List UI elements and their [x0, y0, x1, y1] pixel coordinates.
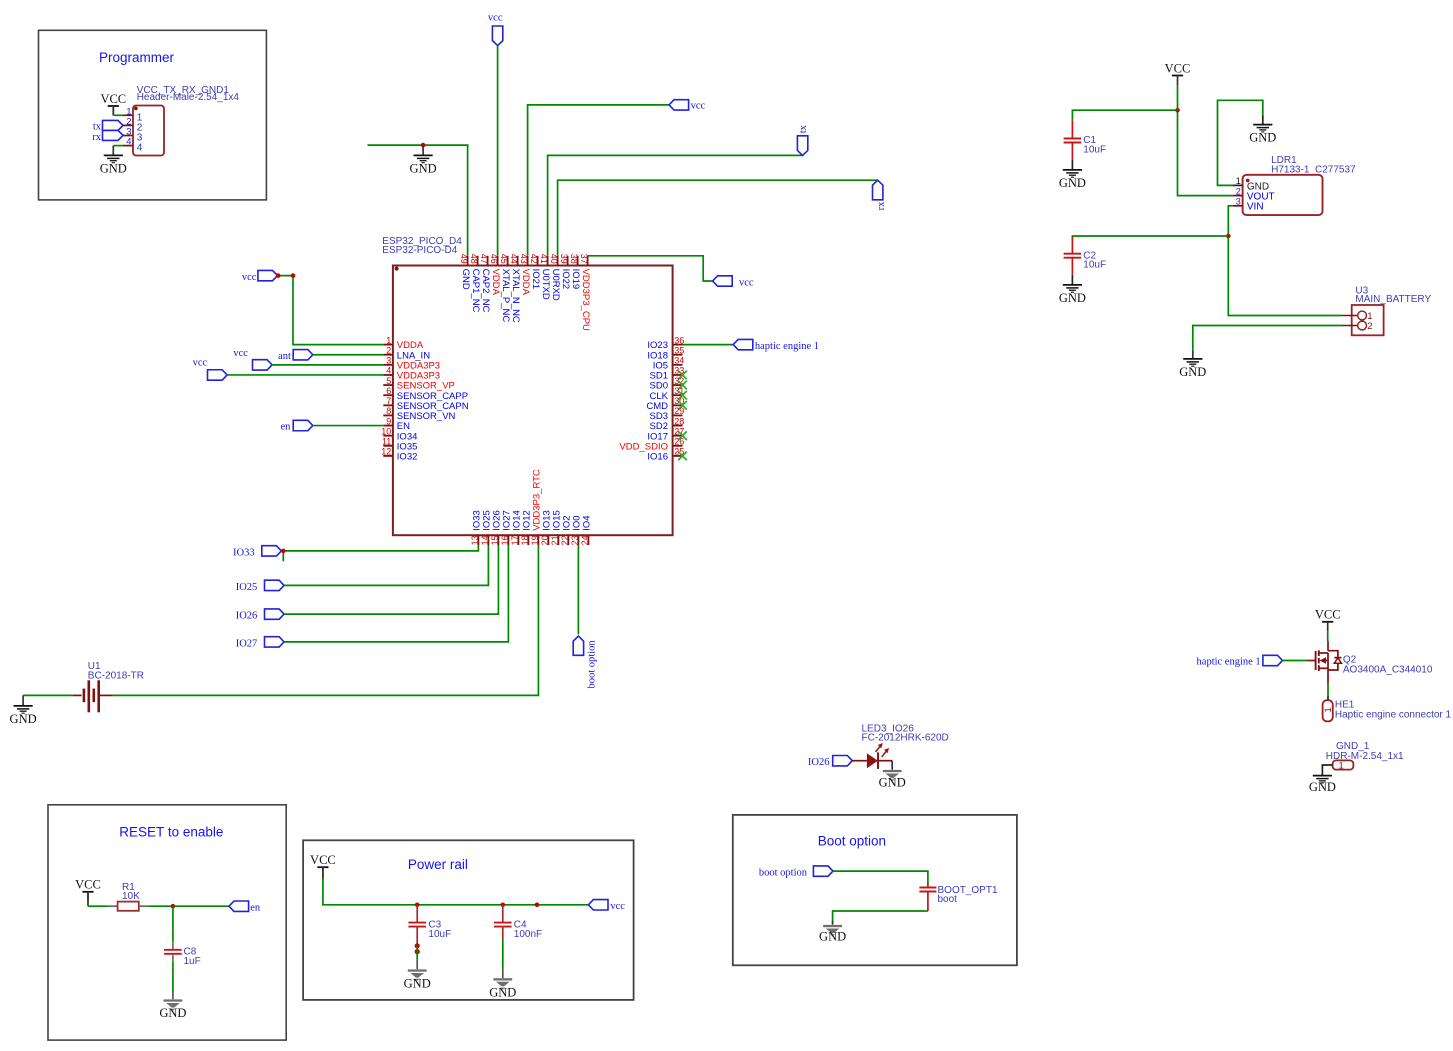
svg-text:2: 2	[1367, 321, 1372, 332]
svg-text:GND: GND	[1309, 780, 1336, 794]
svg-text:16: 16	[500, 535, 510, 545]
svg-text:1: 1	[386, 335, 391, 345]
svg-text:4: 4	[137, 143, 143, 154]
wire LDR1 GND pin to GND symbol	[1218, 100, 1263, 185]
svg-text:10uF: 10uF	[428, 929, 451, 940]
wire en flag to ESP32 pin 9	[313, 425, 384, 427]
junction rail/C3	[415, 903, 420, 908]
ground GND (LED3)	[879, 770, 906, 790]
ESP32 pin 12 IO32	[381, 447, 417, 463]
svg-text:Programmer: Programmer	[99, 50, 175, 65]
svg-text:22: 22	[560, 535, 570, 545]
junction VIN / C2 branch	[1226, 234, 1231, 239]
header VCC_TX_RX_GND1 Header-Male-2.54_1x4	[123, 85, 239, 156]
ESP32 pin 10 IO34	[381, 426, 417, 442]
wire VCC to header pin 1	[113, 106, 123, 115]
svg-text:3: 3	[1236, 197, 1241, 207]
svg-text:GND: GND	[489, 986, 516, 1000]
title: RESET to enable	[119, 825, 223, 840]
svg-text:23: 23	[570, 535, 580, 545]
ESP32 pin 3 VDDA3P3	[383, 356, 440, 372]
wire vcc flag to ESP32 pin 3	[272, 364, 383, 366]
svg-text:44: 44	[509, 254, 519, 264]
net flag IO27 (to ESP32 pin 16)	[236, 637, 284, 650]
svg-text:U0RXD: U0RXD	[550, 269, 561, 301]
net flag IO26 (to LED3)	[808, 756, 852, 768]
svg-text:IO4: IO4	[582, 515, 593, 530]
ESP32 pin 33 SD1	[650, 366, 687, 382]
ground GND (C8)	[159, 999, 186, 1019]
svg-text:2: 2	[1236, 186, 1241, 196]
ground GND (GND_1)	[1309, 776, 1336, 794]
svg-text:IO33: IO33	[233, 547, 255, 558]
ground GND (top rail)	[410, 145, 437, 175]
wire vcc flag to ESP32 pin 46	[497, 46, 499, 256]
ESP32 pin 34 IO5	[653, 356, 685, 372]
svg-text:10K: 10K	[122, 891, 140, 902]
wire IO26 flag to ESP32 pin 15	[284, 545, 498, 614]
wire ESP32 pin 23 IO0 to boot option flag	[577, 545, 579, 634]
wire BOOT_OPT1 to GND	[833, 911, 928, 925]
ESP32 pin 16 IO27	[500, 510, 512, 545]
svg-text:13: 13	[470, 535, 480, 545]
ESP32 pin 45 XTAL_P_NC	[499, 254, 511, 323]
junction rail (right)	[535, 903, 540, 908]
ESP32 pin 40 U0RXD	[549, 254, 561, 301]
net flag IO33 (to ESP32 pin 13)	[233, 546, 281, 559]
battery U1 BC-2018-TR	[72, 661, 144, 712]
svg-text:6: 6	[386, 386, 391, 396]
svg-text:34: 34	[674, 356, 684, 366]
connector GND_1 HDR-M-2.54_1x1	[1326, 741, 1404, 771]
svg-text:tx: tx	[93, 121, 102, 132]
power flag VCC (Q2 drain)	[1315, 608, 1341, 632]
svg-text:Boot option: Boot option	[818, 834, 886, 849]
transistor Q2 AO3400A_C344010	[1308, 641, 1433, 684]
svg-text:7: 7	[386, 396, 391, 406]
net flag tx (to ESP32 pin 41)	[797, 124, 808, 155]
junction R1/C8/en	[171, 904, 176, 909]
svg-text:boot option: boot option	[586, 640, 597, 689]
svg-text:41: 41	[539, 254, 549, 264]
svg-text:12: 12	[381, 447, 391, 457]
capacitor C1 10uF	[1064, 120, 1106, 160]
ESP32 pin 17 IO14	[510, 510, 522, 545]
LED LED3_IO26 FC-2012HRK-620D	[852, 723, 948, 769]
svg-text:VCC: VCC	[1315, 608, 1341, 622]
svg-text:10: 10	[381, 426, 391, 436]
svg-text:1uF: 1uF	[184, 956, 201, 967]
svg-text:38: 38	[569, 254, 579, 264]
svg-text:GND: GND	[1059, 176, 1086, 190]
net flag vcc (to ESP32 pin 1 VDDA)	[242, 270, 278, 282]
svg-text:43: 43	[519, 254, 529, 264]
svg-text:VCC: VCC	[75, 878, 101, 892]
svg-text:100nF: 100nF	[514, 929, 542, 940]
ESP32 pin 28 SD2	[650, 416, 685, 432]
svg-text:46: 46	[489, 254, 499, 264]
svg-text:19: 19	[530, 535, 540, 545]
regulator LDR1 H7133-1_C277537	[1233, 155, 1356, 215]
frame: Programmer section box	[39, 30, 267, 200]
wire GND rail to ESP32 pin 49	[368, 145, 468, 256]
wire U3 pin 2 to GND	[1193, 326, 1342, 359]
svg-text:2: 2	[386, 345, 391, 355]
svg-text:37: 37	[579, 254, 589, 264]
ESP32 pin 24 IO4	[580, 515, 592, 545]
net flag boot option (boot box)	[759, 866, 833, 879]
svg-text:Haptic engine connector 1: Haptic engine connector 1	[1335, 709, 1452, 720]
wire battery U1 to GND	[23, 695, 72, 705]
net flag en (reset)	[229, 901, 261, 913]
wire C3 to GND	[416, 946, 418, 969]
svg-text:GND: GND	[159, 1006, 186, 1020]
wire VCC to R1	[88, 892, 108, 906]
resistor R1 10K	[108, 882, 148, 911]
svg-text:9: 9	[386, 416, 391, 426]
svg-text:42: 42	[529, 254, 539, 264]
svg-text:GND: GND	[100, 161, 127, 175]
svg-text:5: 5	[386, 376, 391, 386]
wire ant flag to ESP32 pin 2	[313, 354, 384, 356]
svg-text:IO16: IO16	[647, 452, 668, 463]
svg-text:IO27: IO27	[236, 638, 258, 649]
svg-text:tx: tx	[798, 124, 809, 133]
ground GND (C3)	[404, 969, 431, 990]
wire ESP32 pin 40 to rx flag	[558, 180, 878, 256]
svg-text:17: 17	[510, 535, 520, 545]
svg-text:vcc: vcc	[488, 13, 503, 24]
net flag vcc (power rail)	[588, 900, 625, 913]
ground GND (LDR1)	[1249, 125, 1276, 145]
svg-text:28: 28	[674, 416, 684, 426]
wire IO33 flag to ESP32 pin 13	[281, 545, 478, 561]
ESP32 pin 32 SD0	[650, 376, 687, 392]
net flag vcc (to ESP32 pin 4 VDDA3P3)	[193, 357, 228, 380]
wire vcc flag to ESP32 pin 1	[278, 276, 384, 345]
wire IO27 flag to ESP32 pin 16	[284, 545, 508, 642]
jumper BOOT_OPT1 boot	[919, 883, 998, 911]
ESP32 pin 36 IO23	[647, 335, 684, 351]
ground GND (battery)	[10, 706, 37, 726]
ESP32 pin 8 SENSOR_VN	[383, 406, 455, 422]
capacitor C4 100nF	[494, 905, 542, 940]
ESP32 pin 2 LNA_IN	[383, 345, 430, 361]
svg-text:35: 35	[674, 345, 684, 355]
ESP32 pin 37 VDD3P3_CPU	[579, 254, 591, 331]
ESP32 pin 1 VDDA	[383, 335, 424, 351]
ESP32 pin 38 IO19	[569, 254, 581, 289]
ESP32 pin 44 XTAL_N_NC	[509, 254, 521, 323]
svg-text:BC-2018-TR: BC-2018-TR	[88, 671, 144, 682]
svg-text:haptic engine 1: haptic engine 1	[1197, 657, 1261, 668]
svg-text:4: 4	[386, 366, 391, 376]
wire Q2 source to HE1	[1327, 684, 1329, 700]
svg-text:CAP1_NC: CAP1_NC	[470, 269, 481, 313]
svg-text:IO26: IO26	[808, 757, 830, 768]
svg-text:AO3400A_C344010: AO3400A_C344010	[1343, 664, 1433, 675]
junction VCC / C1 branch	[1175, 108, 1180, 113]
svg-text:24: 24	[580, 535, 590, 545]
svg-text:XTAL_P_NC: XTAL_P_NC	[500, 269, 511, 323]
junction at vcc flag tip	[276, 273, 281, 278]
net flag en (to ESP32 pin 9 EN)	[280, 420, 312, 432]
wire ESP32 pin 19 VDD3P3_RTC to battery U1	[113, 545, 539, 695]
connector HE1 Haptic engine connector 1	[1323, 700, 1452, 722]
svg-text:boot: boot	[938, 894, 958, 905]
svg-text:IO25: IO25	[236, 582, 258, 593]
title: Programmer	[99, 50, 175, 65]
ESP32 pin 20 IO13	[540, 510, 552, 545]
svg-text:IO32: IO32	[397, 452, 418, 463]
svg-text:en: en	[250, 902, 261, 913]
svg-text:VCC: VCC	[310, 853, 336, 867]
svg-text:U0TXD: U0TXD	[540, 269, 551, 300]
svg-text:11: 11	[382, 437, 391, 447]
svg-text:14: 14	[480, 535, 490, 545]
svg-text:VIN: VIN	[1247, 202, 1264, 213]
svg-text:CAP2_NC: CAP2_NC	[480, 269, 491, 313]
title: Power rail	[408, 857, 468, 872]
svg-text:VDDA: VDDA	[490, 269, 501, 296]
ESP32 pin 19 VDD3P3_RTC	[530, 469, 542, 545]
wire junction to C2	[1072, 236, 1228, 238]
ESP32 pin 11 IO35	[382, 437, 417, 453]
svg-text:GND: GND	[1179, 365, 1206, 379]
wire R1 to en flag	[148, 905, 229, 907]
frame: RESET to enable section box	[48, 805, 286, 1040]
svg-text:39: 39	[559, 254, 569, 264]
IC ESP32_PICO_D4 (ESP32-PICO-D4)	[382, 236, 672, 535]
battery connector U3 MAIN_BATTERY	[1342, 286, 1432, 336]
svg-text:40: 40	[549, 254, 559, 264]
svg-text:IO21: IO21	[530, 269, 541, 290]
ESP32 pin 30 CMD	[646, 396, 686, 412]
ESP32 pin 15 IO26	[490, 510, 502, 545]
ESP32 pin 23 IO0	[570, 515, 582, 545]
net flag tx (programmer)	[93, 120, 123, 132]
svg-text:ESP32-PICO-D4: ESP32-PICO-D4	[382, 245, 457, 256]
svg-text:RESET to enable: RESET to enable	[119, 825, 223, 840]
svg-text:vcc: vcc	[233, 348, 248, 359]
wire VCC rail to vcc flag	[323, 867, 589, 905]
svg-text:VDD3P3_CPU: VDD3P3_CPU	[580, 269, 591, 331]
svg-text:vcc: vcc	[242, 272, 257, 283]
ESP32 pin 35 IO18	[647, 345, 684, 361]
wire vcc flag to ESP32 pin 4	[227, 374, 383, 376]
svg-text:20: 20	[540, 535, 550, 545]
ground GND (boot option)	[819, 925, 846, 944]
svg-text:1: 1	[1323, 707, 1334, 712]
svg-text:48: 48	[469, 254, 479, 264]
svg-text:IO19: IO19	[570, 269, 581, 290]
ESP32 pin 14 IO25	[480, 510, 492, 545]
svg-text:ant: ant	[278, 351, 291, 362]
ESP32 pin 26 VDD_SDIO	[619, 437, 684, 453]
wire C4 to GND	[502, 940, 504, 978]
wire LED3 cathode to GND	[891, 761, 893, 770]
ground GND (C1)	[1059, 160, 1086, 190]
svg-text:haptic engine 1: haptic engine 1	[755, 341, 819, 352]
ESP32 pin 39 IO22	[559, 254, 571, 289]
svg-text:rx: rx	[92, 132, 101, 143]
svg-text:GND: GND	[10, 712, 37, 726]
net flag vcc (top, to ESP32 pin 46)	[488, 13, 503, 46]
svg-text:15: 15	[490, 535, 500, 545]
wire GND_1 pin to GND	[1322, 765, 1332, 775]
svg-text:IO22: IO22	[560, 269, 571, 290]
svg-text:en: en	[280, 422, 291, 433]
svg-text:IO26: IO26	[236, 611, 258, 622]
svg-text:3: 3	[386, 356, 391, 366]
svg-text:boot option: boot option	[759, 868, 808, 879]
svg-text:18: 18	[520, 535, 530, 545]
net flag ant (to ESP32 pin 2 LNA_IN)	[278, 350, 313, 362]
svg-text:GND: GND	[460, 269, 471, 290]
svg-text:10uF: 10uF	[1083, 144, 1106, 155]
svg-text:H7133-1_C277537: H7133-1_C277537	[1271, 164, 1356, 175]
wire VCC down to LDR1 VOUT	[1178, 85, 1233, 196]
ESP32 pin 7 SENSOR_CAPN	[383, 396, 468, 412]
capacitor C8 1uF	[164, 947, 201, 967]
wire IO25 flag to ESP32 pin 14	[284, 545, 488, 585]
wire VCC junction to C1	[1072, 110, 1177, 120]
net flag boot option (at ESP32 pin 23)	[573, 636, 597, 689]
svg-text:XTAL_N_NC: XTAL_N_NC	[510, 269, 521, 323]
net flag haptic engine 1 (at ESP32 pin 36)	[733, 339, 819, 352]
svg-text:vcc: vcc	[610, 901, 625, 912]
svg-text:vcc: vcc	[691, 101, 706, 112]
wire VCC to Q2 drain	[1327, 631, 1329, 641]
ESP32 pin 6 SENSOR_CAPP	[383, 386, 468, 402]
ESP32 pin 29 SD3	[650, 406, 685, 422]
ESP32 pin 9 EN	[383, 416, 410, 432]
power flag VCC (reset)	[75, 878, 101, 902]
svg-text:21: 21	[550, 535, 560, 545]
junction at wire corner	[291, 273, 296, 278]
net flag haptic engine 1 (to Q2 gate)	[1197, 655, 1283, 667]
ESP32 pin 13 IO33	[470, 510, 482, 545]
wire junction to C8	[172, 906, 174, 950]
wire ESP32 pin 41 to tx flag	[548, 155, 803, 255]
svg-text:49: 49	[459, 254, 469, 264]
ESP32 pin 31 CLK	[650, 386, 687, 402]
svg-text:45: 45	[499, 254, 509, 264]
wire ESP32 pin 36 to haptic engine 1 flag	[683, 344, 734, 346]
svg-text:1: 1	[1236, 176, 1241, 186]
svg-text:10uF: 10uF	[1083, 260, 1106, 271]
title: Boot option	[818, 834, 886, 849]
junction at IO33 flag	[281, 549, 286, 554]
svg-text:GND: GND	[1249, 131, 1276, 145]
svg-text:GND: GND	[819, 930, 846, 944]
junction rail/C4	[501, 903, 506, 908]
wire LDR1 VIN to battery U3 pin 1	[1228, 206, 1342, 316]
ESP32 pin 4 VDDA3P3	[383, 366, 440, 382]
net flag vcc (to ESP32 pin 43)	[669, 100, 706, 112]
ESP32 pin 25 IO16	[647, 447, 686, 463]
junction at GND stem	[421, 143, 426, 148]
ESP32 pin 22 IO2	[560, 515, 572, 545]
ground GND (C4)	[489, 978, 516, 999]
svg-text:26: 26	[674, 437, 684, 447]
capacitor C3 10uF	[408, 905, 451, 944]
junction below C3 (x2)	[415, 943, 420, 954]
svg-text:29: 29	[674, 406, 684, 416]
ESP32 pin 5 SENSOR_VP	[383, 376, 455, 392]
wire C8 to GND	[172, 954, 174, 999]
svg-text:GND: GND	[1059, 291, 1086, 305]
ESP32 pin 46 VDDA	[489, 254, 501, 296]
net flag rx (to ESP32 pin 40)	[873, 180, 888, 210]
power flag VCC (power rail)	[310, 853, 336, 877]
net flag vcc (to ESP32 pin 37)	[713, 276, 754, 289]
svg-text:4: 4	[126, 137, 131, 148]
net flag IO26 (to ESP32 pin 15)	[236, 609, 284, 622]
svg-text:GND: GND	[404, 977, 431, 991]
ground GND (U3)	[1179, 359, 1206, 379]
svg-text:GND: GND	[410, 161, 437, 175]
svg-text:Header-Male-2.54_1x4: Header-Male-2.54_1x4	[137, 92, 240, 103]
ground GND (programmer)	[100, 155, 127, 175]
ESP32 pin 48 CAP1_NC	[469, 254, 481, 313]
wire header pin 4 to GND	[113, 146, 123, 156]
svg-text:MAIN_BATTERY: MAIN_BATTERY	[1355, 294, 1431, 305]
frame: Power rail section box	[303, 840, 633, 1000]
ESP32 pin 41 U0TXD	[539, 254, 551, 300]
power flag VCC (programmer)	[100, 92, 126, 116]
net flag IO25 (to ESP32 pin 14)	[236, 580, 284, 593]
net flag vcc (to ESP32 pin 3 VDDA3P3)	[233, 348, 272, 370]
svg-text:vcc: vcc	[193, 357, 208, 368]
wire ESP32 pin 37 to vcc flag	[588, 256, 713, 281]
svg-text:FC-2012HRK-620D: FC-2012HRK-620D	[862, 732, 949, 743]
svg-text:GND: GND	[879, 775, 906, 789]
ESP32 pin 27 IO17	[647, 426, 686, 442]
svg-text:VCC: VCC	[1165, 61, 1191, 75]
ground GND (C2)	[1059, 275, 1086, 305]
net flag rx (programmer)	[92, 130, 123, 142]
wire boot option flag to BOOT_OPT1	[833, 871, 928, 884]
ESP32 pin 47 CAP2_NC	[479, 254, 491, 313]
ESP32 pin 21 IO15	[550, 510, 562, 545]
svg-text:Power rail: Power rail	[408, 857, 468, 872]
svg-text:VCC: VCC	[100, 92, 126, 106]
power flag VCC (right top)	[1165, 61, 1191, 85]
ESP32 pin 42 IO21	[529, 254, 541, 289]
svg-text:47: 47	[479, 254, 489, 264]
ESP32 pin 43 VDDA	[519, 254, 531, 296]
svg-text:1: 1	[1339, 760, 1344, 771]
svg-text:8: 8	[386, 406, 391, 416]
capacitor C2 10uF	[1064, 237, 1106, 275]
wire haptic engine 1 flag to Q2 gate	[1283, 660, 1308, 662]
wire ESP32 pin 43 to vcc flag	[528, 105, 669, 256]
ESP32 pin 49 GND	[459, 254, 471, 290]
svg-text:VDDA: VDDA	[520, 269, 531, 296]
frame: Boot option section box	[733, 815, 1017, 965]
svg-text:vcc: vcc	[739, 277, 754, 288]
svg-text:rx: rx	[876, 201, 887, 210]
ESP32 pin 18 IO12	[520, 510, 532, 545]
